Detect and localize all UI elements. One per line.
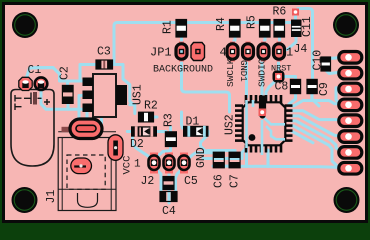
capacitor C2 xyxy=(62,85,73,103)
svg-text:R3: R3 xyxy=(163,113,176,127)
resistor R1 xyxy=(176,20,187,38)
JP1 pad1 xyxy=(179,42,184,62)
J1 top oval pad xyxy=(70,119,102,139)
silkscreen J1 + C1 bodies xyxy=(11,90,116,211)
svg-text:US1: US1 xyxy=(132,84,145,105)
header J3 pad 6 xyxy=(339,131,362,143)
svg-text:C8: C8 xyxy=(275,81,289,94)
wire US1 pad2 to J1 pad xyxy=(79,96,82,123)
capacitor C10 xyxy=(321,57,331,71)
J1 middle oval pad xyxy=(71,158,92,174)
wire header pad3-pad4 jog xyxy=(336,88,341,104)
wire R3 bottom stub xyxy=(169,147,172,151)
header J3 pad 7 xyxy=(339,147,362,159)
wire NRST via to C8 top xyxy=(280,77,296,81)
wire US1 tab hook to R2 xyxy=(130,103,135,106)
internal traces xyxy=(247,100,286,155)
wire D2 right to R3 xyxy=(156,130,166,133)
capacitor C8 xyxy=(290,79,300,93)
wire C3 left to US1 pad1 xyxy=(80,65,98,82)
J4 pad 4 (SWCLK) xyxy=(227,42,238,62)
mounting holes xyxy=(12,12,360,213)
pad C1- octagon xyxy=(19,77,32,90)
svg-text:VCC: VCC xyxy=(122,156,134,175)
wire JP1 net down to D1 left xyxy=(182,112,183,128)
hole bottom-right xyxy=(334,187,360,213)
wire R4 to J4 pad4 xyxy=(233,34,236,50)
JP1 pad2 xyxy=(191,43,205,61)
capacitor C5 xyxy=(163,177,174,190)
resistor R6 xyxy=(274,20,285,38)
svg-text:GND1: GND1 xyxy=(238,60,248,82)
wire via over to C9 top xyxy=(298,9,313,80)
svg-text:C6: C6 xyxy=(213,174,226,188)
svg-text:D2: D2 xyxy=(130,138,144,151)
header J2 pads xyxy=(149,153,190,174)
svg-text:R5: R5 xyxy=(246,15,259,29)
svg-text:C4: C4 xyxy=(162,205,176,218)
wire C3 right up to top bus xyxy=(111,23,296,65)
wire gnd bus to header pad8 xyxy=(213,166,344,168)
capacitor C6 xyxy=(213,152,224,168)
wire US1 pad3 to J1 pad xyxy=(86,110,89,124)
svg-text:C11: C11 xyxy=(301,16,314,37)
wire via to C11 top xyxy=(294,13,297,20)
wire J2 pad2 down through C5 C4 xyxy=(168,163,171,203)
hole bottom-left xyxy=(12,187,38,213)
J4 pad 2 (SWDIO) xyxy=(258,42,269,62)
diode D1 xyxy=(183,126,209,137)
traces xyxy=(26,9,346,204)
capacitor C3 xyxy=(96,60,113,69)
capacitor C11 xyxy=(291,20,302,38)
svg-text:J2: J2 xyxy=(141,175,155,188)
wire D1 right down to C6 xyxy=(201,131,209,153)
wire C6 C7 tops xyxy=(205,151,235,153)
svg-text:C3: C3 xyxy=(97,46,111,59)
C1 plus symbol xyxy=(44,99,50,105)
svg-text:R6: R6 xyxy=(273,6,287,19)
wire NRST via into US2 xyxy=(266,78,279,98)
J2 pad 2 xyxy=(164,153,175,174)
svg-text:C9: C9 xyxy=(318,82,331,96)
wire fan US2 to header xyxy=(292,101,346,106)
header right column pads xyxy=(339,52,362,175)
svg-text:J1: J1 xyxy=(45,190,58,204)
wire D2 left stub xyxy=(127,130,131,133)
svg-text:C5: C5 xyxy=(184,175,198,188)
wire JP1 pad1 down across to US2 xyxy=(182,58,230,112)
svg-text:C10: C10 xyxy=(312,50,325,71)
wire J4 pad2 to US2 xyxy=(247,52,249,97)
wire J2 pad1 to R3 bottom xyxy=(155,147,171,159)
hole top-right xyxy=(333,12,359,38)
capacitor C9 xyxy=(307,79,317,93)
via near R6 xyxy=(292,9,299,16)
resistor R2 xyxy=(139,112,154,122)
C1 cap symbol xyxy=(24,93,42,105)
svg-text:1: 1 xyxy=(286,46,293,60)
header J3 pad 2 xyxy=(339,67,362,79)
header J3 pad 4 xyxy=(339,99,362,111)
wire C11 bottom to J4 pad1 xyxy=(283,34,296,51)
svg-text:J4: J4 xyxy=(294,43,308,56)
wire US2 bottom drops to bus xyxy=(245,150,248,167)
svg-text:SWCLK: SWCLK xyxy=(225,58,236,87)
wire J2 pad3 to C4 right xyxy=(176,167,185,194)
capacitor C7 xyxy=(229,152,240,168)
US1 regulator xyxy=(83,74,128,117)
hole top-left xyxy=(12,12,38,38)
svg-text:GND: GND xyxy=(195,147,208,168)
wire J2 pad3 up right xyxy=(184,153,214,163)
via teardrop pad xyxy=(259,96,266,119)
svg-text:NRST: NRST xyxy=(271,64,291,74)
wire C1- up to C2/US1 pad1 xyxy=(26,68,85,82)
test pad NRST via xyxy=(273,71,285,83)
pad C1+ ring xyxy=(33,76,48,91)
header J4 pads xyxy=(227,42,285,62)
pin1 dot xyxy=(249,134,256,141)
svg-text:R4: R4 xyxy=(215,17,228,31)
svg-text:US2: US2 xyxy=(224,114,237,135)
svg-text:BACKGROUND: BACKGROUND xyxy=(153,65,213,76)
svg-text:R2: R2 xyxy=(144,100,158,113)
svg-text:D1: D1 xyxy=(186,116,200,129)
wire C8 bottom down xyxy=(289,93,296,104)
wire C2 top stub xyxy=(66,81,69,85)
labels horizontal xyxy=(28,6,308,219)
header J3 pad 3 xyxy=(339,83,362,95)
wire R3 top stub xyxy=(169,127,172,132)
header J3 pad 1 xyxy=(339,52,362,64)
wire US1 bottom to J1 xyxy=(100,113,103,123)
resistor R4 xyxy=(230,20,241,38)
J2 pad 3 (GND) xyxy=(179,153,190,174)
connector J1 body xyxy=(58,131,116,133)
svg-text:C7: C7 xyxy=(229,174,242,188)
test pad via in US2 xyxy=(259,109,267,117)
capacitor C4 xyxy=(160,192,177,202)
J4 pad 3 (GND1) xyxy=(243,42,254,62)
svg-text:R1: R1 xyxy=(162,20,175,34)
J2 pad 1 (VCC) xyxy=(149,153,160,174)
wire C10 top to header pad1 xyxy=(330,57,345,59)
capacitor C1 pads xyxy=(19,76,49,91)
resistors top row: R1 R4 R5 R6 C11 xyxy=(176,20,302,38)
resistor R3 xyxy=(165,132,176,147)
wire C9 bottom down xyxy=(312,93,319,106)
svg-text:JP1: JP1 xyxy=(150,46,172,60)
svg-text:4: 4 xyxy=(220,46,227,60)
wire C2 bottom stub xyxy=(67,102,70,109)
capacitor C1 body xyxy=(11,90,54,167)
wire R5 to J4 pad3 xyxy=(264,34,266,50)
labels vertical (rotated 90 ccw) xyxy=(45,15,331,203)
wire R1 bottom to JP1 pad1 xyxy=(180,34,183,45)
wire J2 pad1 to C4 left xyxy=(154,167,161,194)
wire over C1 label xyxy=(34,68,60,75)
connector J1 pads xyxy=(70,119,123,174)
wire C3 right to US1 tab xyxy=(114,65,135,114)
IC US2 QFP xyxy=(235,95,293,155)
wire R6 to J4 pad2 xyxy=(278,34,281,50)
svg-text:C1: C1 xyxy=(28,64,42,77)
wire C10 bottom to header pad2 xyxy=(326,70,343,74)
J1 dark contact band xyxy=(62,127,79,132)
svg-text:SWDIO: SWDIO xyxy=(257,58,268,87)
header J3 pad 8 xyxy=(339,162,362,174)
J4 pad 1 (NRST) xyxy=(274,42,285,62)
J1 right pad xyxy=(108,135,123,161)
wire J4 pad3 to US2 via xyxy=(262,52,264,108)
header JP1 pads xyxy=(176,42,205,62)
svg-text:1: 1 xyxy=(134,159,141,171)
C1 TT marks xyxy=(15,95,22,110)
wire J4 pad1 to NRST via xyxy=(279,52,280,74)
wire J2 pad1 to D2 xyxy=(133,137,155,160)
diode D2 xyxy=(131,126,157,136)
resistor R5 xyxy=(260,20,271,38)
wire C1+ down to C2 bottom / US1 pad3 xyxy=(41,84,86,109)
wire R2 right stub xyxy=(152,116,157,119)
header J3 pad 5 xyxy=(339,115,362,127)
